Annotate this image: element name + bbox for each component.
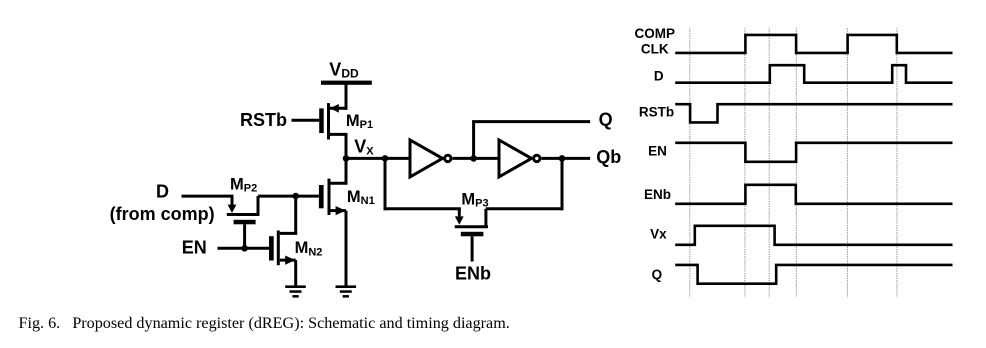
svg-text:ENb: ENb <box>644 187 671 202</box>
inverter U2 <box>499 140 540 177</box>
gridline t6 <box>896 28 898 298</box>
gridline t5 <box>846 28 848 298</box>
svg-text:RSTb: RSTb <box>639 105 674 120</box>
wire RSTb to MP1 gate <box>292 119 320 122</box>
wire VDD to MP1 source <box>345 84 348 110</box>
node Q tap <box>470 155 477 162</box>
transistor MN2 <box>269 231 297 287</box>
waveform D <box>675 65 952 83</box>
transistor MP2 <box>227 196 260 248</box>
svg-text:Vx: Vx <box>650 226 667 241</box>
wire D input <box>182 195 234 198</box>
waveform Q <box>675 265 952 284</box>
wire MP2 drain to MN1 gate <box>258 195 319 198</box>
waveform COMP CLK <box>675 35 952 53</box>
node D-internal <box>292 193 299 200</box>
svg-text:EN: EN <box>648 144 667 159</box>
ground MN1 <box>336 285 357 297</box>
transistor MP1 <box>319 103 347 160</box>
svg-text:CLK: CLK <box>641 41 669 56</box>
svg-text:COMP: COMP <box>635 26 676 41</box>
power rail VDD <box>321 81 372 85</box>
transistor MN1 <box>319 160 348 287</box>
wire EN <box>218 247 270 250</box>
transistor MP3 <box>455 209 488 262</box>
svg-text:Fig. 6. Proposed dynamic reg: Fig. 6. Proposed dynamic register (dREG)… <box>19 315 510 332</box>
svg-text:RSTb: RSTb <box>240 110 287 130</box>
svg-text:EN: EN <box>182 238 207 258</box>
wire feedback left (VX to MP3 source) <box>385 158 461 210</box>
node VX feedback tap <box>382 155 389 162</box>
svg-text:(from comp): (from comp) <box>110 204 215 224</box>
waveform Vx <box>675 226 952 245</box>
wire node down to MN2 drain <box>294 196 297 233</box>
svg-text:Qb: Qb <box>596 147 621 167</box>
waveform EN <box>675 143 952 162</box>
svg-text:D: D <box>156 182 169 202</box>
inverter U1 <box>410 140 451 177</box>
wire Qb output <box>542 157 591 160</box>
waveform ENb <box>675 185 952 204</box>
node VX <box>343 155 350 162</box>
wire node VX to inverter U1 <box>346 157 412 160</box>
svg-text:D: D <box>654 69 664 84</box>
gridline t4 <box>795 28 797 298</box>
wire Q output <box>472 122 590 159</box>
node EN gate junction <box>241 245 248 252</box>
node Qb feedback tap <box>559 155 566 162</box>
svg-text:Q: Q <box>599 110 613 130</box>
svg-text:Q: Q <box>652 267 663 282</box>
wire U1 out to U2 in <box>453 157 501 160</box>
waveform RSTb <box>675 104 952 122</box>
label COMP CLK <box>635 26 676 56</box>
svg-text:ENb: ENb <box>455 263 491 283</box>
gridline t1 <box>689 28 691 298</box>
wire feedback right (Qb to MP3 drain) <box>486 158 562 210</box>
gridline t2 <box>744 28 746 298</box>
gridline t3 <box>768 28 770 298</box>
ground MN2 <box>285 285 306 297</box>
